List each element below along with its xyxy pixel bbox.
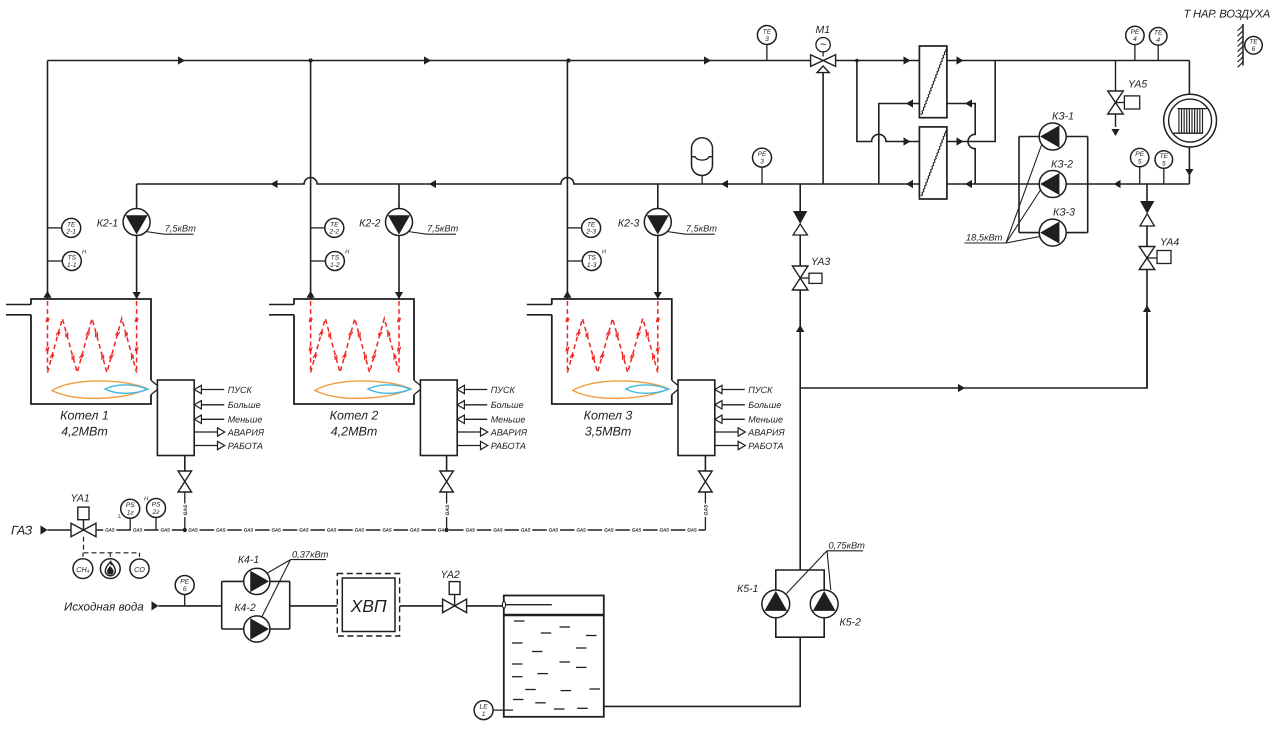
- boiler 2 gas branch with shut-off valve: [440, 456, 454, 531]
- pump К3-3: [1039, 219, 1066, 246]
- svg-text:1-3: 1-3: [587, 262, 597, 269]
- instrument TE/2-1: [48, 218, 81, 237]
- K3 power label 18,5кВт: [965, 145, 1042, 243]
- instrument TE/3: [757, 26, 776, 61]
- svg-text:L: L: [118, 514, 121, 520]
- boiler 1 pump riser: [133, 184, 141, 299]
- svg-text:К2-2: К2-2: [359, 218, 381, 230]
- svg-text:ХВП: ХВП: [350, 596, 387, 616]
- svg-text:GAS: GAS: [105, 528, 115, 533]
- instrument TS/1-1 with H flag: [48, 250, 88, 271]
- gas analyser dashed links: [83, 537, 140, 559]
- svg-text:Т НАР. ВОЗДУХА: Т НАР. ВОЗДУХА: [1184, 9, 1270, 21]
- svg-text:7,5кВт: 7,5кВт: [165, 224, 197, 234]
- heat exchanger T1 plate diagonal: [921, 49, 946, 115]
- svg-text:TE: TE: [1249, 39, 1258, 46]
- svg-text:4: 4: [1133, 36, 1137, 43]
- svg-text:АВАРИЯ: АВАРИЯ: [747, 427, 785, 437]
- tank outlet pipe: [604, 637, 800, 706]
- svg-text:GAS: GAS: [687, 528, 697, 533]
- svg-text:PS: PS: [126, 502, 135, 509]
- pump K4-2: [244, 616, 270, 642]
- pipe XVP to YA2: [400, 605, 443, 607]
- pump K4-2 label: [234, 602, 256, 614]
- pump group K3 parallel box: [1019, 137, 1088, 233]
- pump K5-2: [810, 590, 838, 618]
- boiler 1 shell: [6, 299, 151, 404]
- air heating unit: [1188, 61, 1190, 95]
- gas inlet label ГАЗ: [11, 524, 48, 538]
- instrument PE/3: [753, 148, 772, 184]
- pump К3-3 label: [1053, 207, 1075, 219]
- svg-text:GAS: GAS: [244, 528, 254, 533]
- pump K4-1 label: [238, 554, 259, 566]
- sensor CO: [130, 559, 149, 578]
- svg-text:GAS: GAS: [410, 528, 420, 533]
- return header pipe right section: [947, 183, 1190, 185]
- svg-text:2г: 2г: [152, 509, 161, 516]
- svg-text:YA3: YA3: [811, 256, 830, 268]
- boiler 1 gas branch with shut-off valve: [178, 456, 192, 531]
- boiler 2 control box I/O signals: [457, 385, 528, 451]
- boiler 2 pump riser: [395, 184, 403, 299]
- pump К2-1 power label 7,5кВт: [146, 224, 197, 235]
- svg-text:4: 4: [1156, 37, 1160, 44]
- pump К3-1 label: [1052, 111, 1074, 123]
- svg-text:YA1: YA1: [71, 493, 90, 505]
- crossover flow arrow: [958, 384, 965, 392]
- svg-text:GAS: GAS: [704, 504, 710, 516]
- K5 power label 0,75кВт: [787, 541, 866, 594]
- svg-text:GAS: GAS: [327, 528, 337, 533]
- boiler 1 control box: [157, 380, 194, 456]
- boiler 2 burner flame: [315, 381, 411, 398]
- HX2 secondary flow arrows on return header: [906, 180, 972, 188]
- svg-text:GAS: GAS: [632, 528, 642, 533]
- svg-text:ПУСК: ПУСК: [228, 385, 253, 395]
- check valve at YA3 branch: [793, 184, 807, 266]
- svg-text:КЗ-1: КЗ-1: [1052, 111, 1074, 123]
- svg-text:TE: TE: [330, 221, 339, 228]
- svg-text:3: 3: [765, 36, 769, 43]
- pump К2-1 label: [97, 218, 118, 230]
- svg-text:GAS: GAS: [183, 504, 189, 516]
- svg-text:1г: 1г: [127, 510, 135, 517]
- boiler 1 red heating coil: [46, 301, 138, 373]
- svg-text:GAS: GAS: [355, 528, 365, 533]
- svg-text:2-2: 2-2: [329, 229, 340, 236]
- air heating unit return drop: [1185, 147, 1193, 184]
- gas inlet pipe: [48, 529, 72, 531]
- svg-text:Больше: Больше: [748, 400, 781, 410]
- svg-text:Меньше: Меньше: [228, 415, 263, 425]
- boiler 1 burner flame: [52, 381, 148, 398]
- svg-text:TE: TE: [1154, 30, 1163, 37]
- svg-text:Больше: Больше: [228, 400, 261, 410]
- boiler 3 control box I/O signals: [715, 385, 786, 451]
- supply header flow arrows: [178, 56, 711, 64]
- heat exchanger T2 shell: [919, 127, 947, 199]
- svg-text:1: 1: [482, 711, 486, 718]
- pump К2-2 power label 7,5кВт: [408, 224, 459, 235]
- svg-text:РАБОТА: РАБОТА: [491, 441, 526, 451]
- svg-text:0,37кВт: 0,37кВт: [292, 550, 329, 560]
- storage tank shell: [504, 596, 604, 717]
- pump К2-3: [644, 209, 671, 236]
- svg-text:PS: PS: [152, 501, 161, 508]
- instrument TS/1-2 with H flag: [311, 250, 351, 271]
- return header pipe left section with hops over boiler risers: [137, 178, 920, 185]
- pump К2-3 label: [618, 218, 640, 230]
- vent valve YA5: [1108, 61, 1148, 137]
- svg-text:GAS: GAS: [445, 504, 451, 516]
- svg-text:GAS: GAS: [133, 528, 143, 533]
- svg-text:6: 6: [183, 586, 187, 593]
- svg-text:КЗ-2: КЗ-2: [1051, 159, 1073, 171]
- expansion vessel: [692, 138, 713, 184]
- boiler 2 red heating coil: [309, 301, 401, 373]
- boiler 3 control box: [678, 380, 715, 456]
- instrument TE/2-3: [567, 218, 600, 237]
- svg-text:К2-3: К2-3: [618, 218, 640, 230]
- instrument TE/2-2: [311, 218, 344, 237]
- pump К2-3 power label 7,5кВт: [667, 224, 718, 235]
- boiler 3 supply riser: [563, 61, 571, 300]
- tank water level line: [504, 614, 604, 617]
- level sensor LE/1: [474, 701, 513, 720]
- motor valve M1: [811, 24, 836, 73]
- boiler 1 burner throat: [151, 380, 157, 394]
- boiler 1 supply riser: [43, 61, 51, 300]
- boiler 3 burner throat: [672, 380, 678, 394]
- feed riser K5 to junction: [796, 325, 804, 570]
- svg-text:GAS: GAS: [188, 528, 198, 533]
- svg-text:M1: M1: [816, 24, 831, 36]
- svg-text:4,2МВт: 4,2МВт: [61, 424, 108, 438]
- svg-text:АВАРИЯ: АВАРИЯ: [227, 427, 265, 437]
- svg-text:18,5кВт: 18,5кВт: [966, 233, 1003, 243]
- svg-text:GAS: GAS: [161, 528, 171, 533]
- pump K4-1: [244, 568, 270, 594]
- pipe YA4 down with arrow: [1143, 270, 1151, 389]
- svg-text:РАБОТА: РАБОТА: [228, 441, 263, 451]
- svg-text:3,5МВт: 3,5МВт: [585, 424, 632, 438]
- boiler 2 burner throat: [414, 380, 420, 394]
- svg-text:GAS: GAS: [382, 528, 392, 533]
- pipe YA2 to tank: [467, 605, 504, 607]
- svg-text:TE: TE: [587, 221, 596, 228]
- solenoid valve YA4: [1139, 237, 1179, 270]
- heat exchanger T1 shell: [919, 46, 947, 118]
- svg-text:PE: PE: [1135, 151, 1144, 158]
- outdoor air label: [1184, 9, 1270, 21]
- pipe K4 to XVP: [290, 605, 338, 607]
- air heating unit circle: [1164, 94, 1217, 147]
- boiler 1 name: [60, 409, 109, 439]
- pump group K5 parallel box: [776, 570, 824, 637]
- svg-text:Меньше: Меньше: [491, 415, 526, 425]
- HX1 primary flow arrows: [904, 56, 964, 64]
- pressure switch PS/1г with L flag: [118, 499, 140, 530]
- svg-text:5: 5: [1162, 160, 1166, 167]
- svg-text:К5-1: К5-1: [737, 583, 758, 595]
- solenoid valve YA3: [792, 256, 830, 290]
- svg-text:К2-1: К2-1: [97, 218, 118, 230]
- svg-text:GAS: GAS: [493, 528, 503, 533]
- M1 bypass pipe to return: [822, 73, 824, 184]
- solenoid valve YA1: [71, 493, 97, 537]
- svg-text:РАБОТА: РАБОТА: [748, 441, 783, 451]
- supply header pipe (boilers to consumers): [48, 60, 1190, 62]
- boiler 3 gas branch with shut-off valve: [699, 456, 713, 531]
- svg-text:GAS: GAS: [604, 528, 614, 533]
- instrument PE/5: [1131, 148, 1149, 184]
- svg-text:6: 6: [1252, 46, 1256, 53]
- HX2 primary feed pipe with hop: [857, 61, 920, 146]
- svg-text:YA4: YA4: [1160, 237, 1179, 249]
- pump К2-1: [123, 209, 150, 236]
- svg-text:GAS: GAS: [299, 528, 309, 533]
- instrument PE/4: [1126, 26, 1144, 60]
- HX2 primary outlet pipe: [947, 61, 995, 146]
- svg-text:GAS: GAS: [549, 528, 559, 533]
- boiler 3 red heating coil: [566, 301, 660, 373]
- pipe YA3 to junction: [796, 290, 804, 388]
- pump К2-2 label: [359, 218, 381, 230]
- instrument PE/6: [175, 576, 194, 606]
- svg-text:1-1: 1-1: [67, 262, 77, 269]
- make-up crossover pipe: [800, 313, 1147, 388]
- tank water dashes: [512, 621, 600, 709]
- svg-text:Котел 2: Котел 2: [330, 409, 379, 423]
- boiler 2 control box: [420, 380, 457, 456]
- pump group K4 parallel box: [222, 581, 290, 629]
- svg-text:5: 5: [1138, 158, 1142, 165]
- raw water pipe to pumps: [159, 605, 222, 607]
- junction dots on headers: [309, 58, 859, 62]
- svg-text:LE: LE: [480, 704, 489, 711]
- svg-text:Меньше: Меньше: [748, 415, 783, 425]
- pump К3-1: [1039, 123, 1066, 150]
- svg-text:4,2МВт: 4,2МВт: [331, 424, 378, 438]
- svg-text:GAS: GAS: [216, 528, 226, 533]
- svg-text:0,75кВт: 0,75кВт: [829, 541, 866, 551]
- gas main dashed GAS line: [96, 528, 705, 533]
- pump К2-2: [386, 209, 413, 236]
- boiler 1 control box I/O signals: [194, 385, 265, 451]
- svg-text:PE: PE: [758, 151, 767, 158]
- wall with hatching: [1238, 24, 1243, 67]
- pressure switch PS/2г with H flag: [144, 497, 166, 531]
- pump K5-2 label: [840, 617, 862, 629]
- svg-text:YA2: YA2: [441, 569, 460, 581]
- boiler 3 shell: [527, 299, 672, 404]
- svg-text:TE: TE: [763, 28, 772, 35]
- svg-text:GAS: GAS: [576, 528, 586, 533]
- boiler 2 name: [330, 409, 379, 439]
- sensor CH4: [73, 559, 93, 579]
- svg-text:TS: TS: [331, 254, 340, 261]
- svg-text:ГАЗ: ГАЗ: [11, 524, 33, 538]
- svg-text:TE: TE: [1160, 153, 1169, 160]
- heat exchanger T2 plate diagonal: [921, 130, 946, 196]
- pump K5-1: [762, 590, 790, 618]
- return header flow arrows: [271, 180, 1121, 188]
- pump К3-2 label: [1051, 159, 1073, 171]
- svg-text:GAS: GAS: [465, 528, 475, 533]
- svg-text:YA5: YA5: [1128, 79, 1147, 91]
- svg-text:ПУСК: ПУСК: [748, 385, 773, 395]
- svg-text:GAS: GAS: [271, 528, 281, 533]
- svg-text:2-1: 2-1: [65, 229, 76, 236]
- gas main junction dots: [183, 528, 449, 532]
- svg-text:TS: TS: [68, 254, 77, 261]
- instrument TE/6 outdoor: [1245, 37, 1263, 55]
- svg-text:КЗ-3: КЗ-3: [1053, 207, 1075, 219]
- svg-text:GAS: GAS: [521, 528, 531, 533]
- boiler 2 supply riser: [307, 61, 315, 300]
- svg-text:PE: PE: [180, 578, 189, 585]
- svg-text:К4-1: К4-1: [238, 554, 259, 566]
- svg-text:Котел 1: Котел 1: [60, 409, 109, 423]
- svg-text:GAS: GAS: [660, 528, 670, 533]
- svg-text:TE: TE: [67, 221, 76, 228]
- svg-text:CO: CO: [134, 565, 145, 574]
- pump К3-2: [1039, 171, 1066, 198]
- raw water inlet label: [64, 600, 159, 613]
- check valve at YA4 branch: [1140, 184, 1154, 247]
- boiler 3 burner flame: [573, 381, 669, 398]
- svg-text:PE: PE: [1131, 29, 1140, 36]
- tank inlet pipe with wall pass: [502, 601, 551, 608]
- svg-text:АВАРИЯ: АВАРИЯ: [490, 427, 528, 437]
- svg-text:7,5кВт: 7,5кВт: [427, 224, 459, 234]
- pump K5-1 label: [737, 583, 758, 595]
- instrument TE/5: [1155, 151, 1173, 184]
- svg-text:К4-2: К4-2: [234, 602, 256, 614]
- HX1 secondary pipe right with hop over crossing: [947, 99, 975, 184]
- svg-text:Котел 3: Котел 3: [584, 409, 633, 423]
- water treatment unit ХВП: [337, 574, 399, 637]
- HX1 secondary pipe left: [879, 99, 920, 184]
- svg-text:ПУСК: ПУСК: [491, 385, 516, 395]
- instrument TE/4: [1149, 28, 1167, 61]
- solenoid valve YA2: [441, 569, 467, 613]
- svg-text:3: 3: [760, 158, 764, 165]
- svg-text:7,5кВт: 7,5кВт: [686, 224, 718, 234]
- svg-text:Исходная вода: Исходная вода: [64, 600, 144, 613]
- svg-text:Больше: Больше: [491, 400, 524, 410]
- boiler 3 pump riser: [654, 184, 662, 299]
- K4 power label 0,37кВт: [262, 550, 329, 618]
- boiler 2 shell: [269, 299, 414, 404]
- svg-text:CH₄: CH₄: [76, 565, 89, 574]
- svg-text:2-3: 2-3: [585, 229, 596, 236]
- svg-text:1-2: 1-2: [330, 262, 340, 269]
- instrument TS/1-3 with H flag: [567, 250, 607, 271]
- svg-text:~: ~: [820, 39, 827, 51]
- sensor flame detector: [100, 559, 120, 579]
- svg-text:К5-2: К5-2: [840, 617, 862, 629]
- svg-text:TS: TS: [587, 254, 596, 261]
- boiler 3 name: [584, 409, 633, 439]
